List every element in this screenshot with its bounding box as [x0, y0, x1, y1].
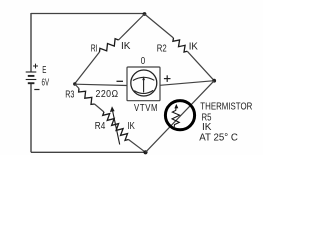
wire R3 to R4 segment	[95, 104, 105, 112]
thermistor R5 body circle	[165, 101, 194, 130]
battery E 6V	[26, 72, 37, 83]
arrow of rheostat R4	[110, 106, 120, 144]
wire battery top lead	[30, 13, 32, 72]
resistor R4	[103, 112, 129, 140]
resistor R2	[173, 38, 187, 52]
svg-text:6V: 6V	[42, 76, 50, 88]
resistor R1	[100, 39, 119, 52]
meter box VTVM	[127, 67, 160, 101]
thermistor internal zigzag	[172, 107, 180, 129]
label minus terminal of meter	[117, 80, 124, 82]
svg-text:220Ω: 220Ω	[96, 87, 119, 99]
wire meter right lead	[160, 81, 214, 86]
svg-text:RI: RI	[91, 42, 98, 54]
svg-text:AT 25° C: AT 25° C	[199, 132, 238, 143]
svg-text:E: E	[42, 64, 46, 76]
svg-text:VTVM: VTVM	[134, 102, 158, 113]
wire bottom bus	[31, 151, 146, 153]
wire top bus	[31, 13, 145, 15]
label plus terminal of meter	[164, 75, 171, 82]
node left vertex	[73, 82, 76, 85]
node bottom vertex	[143, 150, 147, 154]
svg-text:0: 0	[141, 55, 145, 66]
resistor R3	[79, 89, 95, 105]
meter needle	[143, 79, 145, 93]
wire meter left lead	[75, 84, 127, 85]
svg-text:THERMISTOR: THERMISTOR	[200, 101, 252, 112]
node right vertex	[212, 79, 216, 83]
svg-text:IK: IK	[128, 120, 135, 131]
node top vertex	[143, 12, 147, 16]
wire R2 upper segment	[145, 14, 174, 38]
wire R1 lower segment	[75, 52, 100, 84]
wire R1 upper segment	[119, 14, 145, 40]
svg-text:IK: IK	[121, 41, 131, 52]
meter movement circle	[131, 70, 157, 96]
wire battery bottom lead	[30, 83, 32, 152]
svg-text:IK: IK	[189, 41, 199, 52]
meter scale arc top	[133, 77, 154, 80]
meter lower arc	[134, 90, 153, 93]
wire thermistor arm	[146, 81, 215, 153]
svg-text:R3: R3	[65, 89, 74, 100]
svg-text:R4: R4	[95, 120, 105, 131]
meter needle arrowhead	[142, 76, 145, 80]
svg-text:IK: IK	[202, 122, 212, 133]
svg-text:R2: R2	[157, 42, 167, 53]
wire R4 lower segment	[129, 140, 146, 153]
thermistor arrowhead	[174, 104, 178, 109]
wire R2 lower segment	[187, 51, 214, 80]
battery plus sign	[33, 64, 38, 69]
battery minus sign	[34, 89, 39, 91]
wire R3 upper segment	[75, 84, 79, 89]
